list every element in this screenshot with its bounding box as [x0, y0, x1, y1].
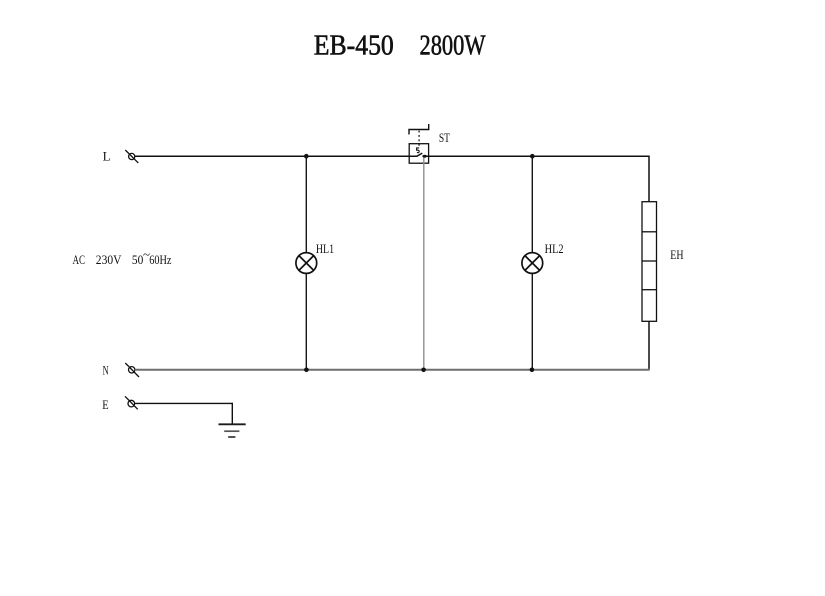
wire E horizontal: [135, 402, 233, 404]
svg-text:ST: ST: [439, 130, 450, 145]
rating label AC 230V 50~60Hz: [73, 247, 172, 267]
svg-text:AC: AC: [73, 252, 86, 267]
junction dot (L / HL1): [304, 154, 309, 159]
wire ST to N (gray drop): [423, 158, 425, 370]
terminal L: [125, 150, 138, 163]
lamp HL1: [296, 253, 317, 274]
svg-text:2800W: 2800W: [420, 31, 486, 62]
svg-text:230V: 230V: [96, 252, 122, 267]
wire HL1 upper: [305, 156, 307, 252]
svg-text:HL1: HL1: [316, 241, 334, 256]
junction dot (N / HL2): [530, 368, 535, 373]
wire right vertical (corner down to EH): [648, 156, 650, 202]
svg-text:EH: EH: [670, 247, 683, 262]
wire HL2 upper: [531, 156, 533, 252]
svg-text:E: E: [102, 397, 108, 412]
svg-text:EB-450: EB-450: [314, 31, 394, 62]
wire HL2 lower: [531, 273, 533, 369]
title EB-450 2800W: [314, 31, 486, 62]
terminal E: [125, 396, 138, 409]
svg-text:60Hz: 60Hz: [149, 252, 171, 267]
junction dot (L / HL2): [530, 154, 535, 159]
wire N (gray horizontal): [135, 369, 650, 371]
svg-text:50: 50: [132, 252, 143, 267]
terminal N: [125, 363, 139, 377]
ground symbol: [219, 424, 246, 437]
thermostat ST contact dot: [422, 155, 426, 158]
thermostat ST box: [409, 144, 428, 164]
lamp HL2: [522, 253, 543, 274]
thermostat ST snap spring: [417, 148, 420, 153]
svg-text:N: N: [103, 362, 109, 377]
wire E vertical to ground: [231, 403, 233, 425]
heater EH body: [642, 202, 657, 322]
junction dot (N / HL1): [304, 368, 309, 373]
wire L (left segment to ST contact): [135, 155, 418, 157]
junction dot (N / ST): [421, 368, 426, 373]
svg-text:HL2: HL2: [545, 241, 564, 256]
wire HL1 lower: [305, 273, 307, 369]
wire right vertical (EH down to N corner): [648, 321, 650, 370]
svg-text:L: L: [103, 149, 111, 164]
thermostat ST blade: [417, 153, 423, 156]
thermostat ST dashed link: [418, 131, 420, 148]
wire L (right segment from ST to top-right corner): [425, 155, 649, 157]
thermostat ST actuator bracket: [409, 124, 429, 135]
